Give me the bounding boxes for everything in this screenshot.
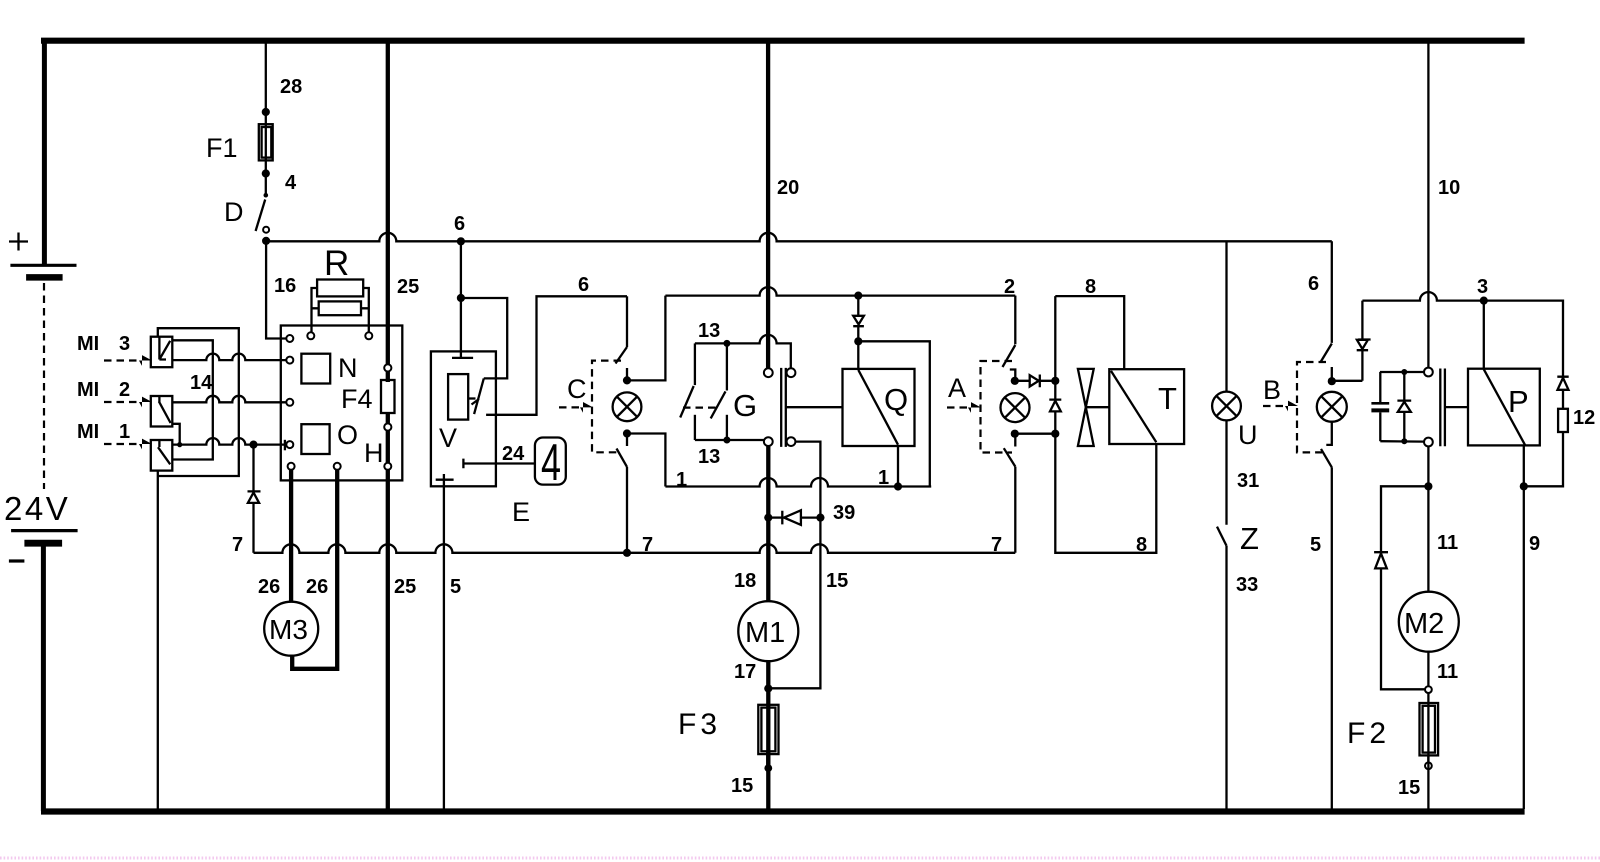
wire B node to diode branch (1332, 380, 1363, 382)
box left terminal 3 (MI2) (286, 399, 293, 406)
svg-text:7: 7 (232, 534, 243, 556)
svg-text:2: 2 (1004, 276, 1015, 298)
thick line 25 (box to bottom bus) (386, 470, 390, 809)
svg-text:F1: F1 (206, 133, 238, 163)
wire from top bus to fuse F1 (265, 42, 267, 174)
svg-text:20: 20 (777, 177, 799, 199)
svg-text:D: D (224, 197, 244, 227)
capacitor block top rail (1380, 371, 1424, 373)
junction dot bottom rail (1401, 438, 1407, 444)
connector: line 10 lower terminal (1424, 438, 1433, 447)
capacitor lower lead (1379, 412, 1381, 441)
top supply bus (+) (41, 38, 1525, 44)
lamp B lower stub (1326, 421, 1332, 445)
F2 lower terminal (1425, 762, 1432, 769)
decorative dotted footer line (0, 857, 1600, 860)
V antenna bar (452, 357, 473, 359)
battery negative lead wire (41, 546, 46, 811)
wire 12 branch to line 9 node (1524, 432, 1563, 486)
node 11 dot (1424, 482, 1432, 490)
battery positive lead wire (42, 38, 47, 264)
wire 24 with tick (463, 459, 535, 469)
node 17 dot (764, 684, 772, 692)
thick line 25 lower (F4 to bottom terminal) (386, 431, 390, 463)
connector: G side lower terminal (787, 437, 796, 446)
A actuator dashed frame (981, 361, 1013, 453)
node 6 dot on rail (457, 237, 465, 245)
battery positive long plate (10, 264, 76, 267)
svg-text:25: 25 (394, 576, 416, 598)
node 15 dot below F3 (764, 764, 772, 772)
MI3 output wire to box (172, 354, 286, 361)
wire diode to resistor 12 (1562, 390, 1564, 409)
relay R right terminal (365, 332, 372, 339)
wire P box to line 9 (1523, 445, 1525, 486)
V switch arm (472, 378, 484, 414)
svg-text:12: 12 (1573, 407, 1595, 429)
svg-text:Z: Z (1240, 521, 1259, 556)
wire lamp C bottom to line 1 (627, 434, 665, 487)
wire node6 down to node (460, 241, 462, 298)
line 10 upper (bus to connector) (1427, 42, 1429, 368)
box bottom terminal 2 (334, 463, 341, 470)
svg-text:6: 6 (454, 213, 465, 235)
line 15 down to M1 return (772, 518, 820, 689)
lamp B (1317, 392, 1347, 422)
MI2 output wire to box (172, 396, 286, 403)
terminal 4 tick (284, 440, 286, 451)
thick wire 26 right (terminal to M3 bottom) (292, 470, 337, 669)
fuse F3 inner wall (761, 708, 775, 752)
device P box (1468, 369, 1540, 446)
lamp B upper switch arm (1320, 344, 1332, 363)
MI2 link junction dot (177, 442, 182, 447)
svg-text:31: 31 (1237, 470, 1259, 492)
MI3 actuation arrow (104, 359, 140, 361)
svg-text:5: 5 (450, 576, 461, 598)
relay R left terminal (307, 332, 314, 339)
battery cell dashed link (43, 283, 45, 489)
rail 2 (C to A switch) (665, 287, 1015, 296)
svg-text:MI: MI (77, 421, 99, 443)
svg-text:B: B (1263, 375, 1281, 405)
svg-text:C: C (567, 374, 587, 404)
svg-text:F3: F3 (678, 708, 721, 741)
motor M1 (738, 601, 798, 661)
device T box (1109, 369, 1184, 444)
junction terminal below M2 (1425, 686, 1432, 693)
wire line 11 (connector to M2) (1427, 446, 1429, 591)
lamp A upper switch arm (1003, 345, 1016, 367)
diode 39 (cathode left) (782, 510, 801, 525)
node 7 dot (623, 549, 631, 557)
V coil (448, 374, 468, 420)
svg-text:H: H (364, 438, 384, 468)
svg-text:E: E (512, 497, 530, 527)
svg-text:25: 25 (397, 276, 419, 298)
relay R left lead (312, 288, 319, 332)
node 7 rail (254, 544, 1016, 553)
wire Q box to line 1 (897, 446, 899, 487)
svg-text:4: 4 (541, 434, 561, 492)
switch D contact circle (263, 227, 269, 233)
connector blade (double bar) (781, 368, 786, 447)
fuse F4 lead lower (386, 413, 390, 424)
switch Z arm (1217, 527, 1227, 546)
sensor switch MI2 box (151, 396, 173, 427)
wire 5 from V to bottom bus (443, 480, 445, 809)
thick line 20 upper (bus to connector) (766, 42, 770, 368)
lamp C lower stub (626, 434, 628, 447)
capacitor upper lead (1379, 372, 1381, 402)
lamp C upper switch arm (616, 347, 628, 364)
node dot on G bottom rail (723, 437, 730, 444)
node dot above Q box (854, 337, 862, 345)
sensor switch MI3 box (151, 337, 173, 368)
control unit box (281, 326, 403, 481)
wire M2 junction to F2 (1427, 693, 1429, 766)
svg-text:18: 18 (734, 570, 756, 592)
lamp A lower stub (1014, 434, 1016, 447)
lamp C upper contact stub (626, 368, 628, 380)
thick line 25 upper (bus to F4) (386, 42, 390, 365)
svg-text:6: 6 (1308, 273, 1319, 295)
fuse F4 body (381, 380, 395, 413)
fan symbol lower blade (1078, 407, 1094, 446)
svg-text:9: 9 (1529, 533, 1540, 555)
svg-text:8: 8 (1136, 534, 1147, 556)
G right contact upper stub (726, 343, 728, 390)
motor M2 (1399, 592, 1459, 652)
lamp B upper switch lead (1331, 241, 1333, 343)
fan symbol upper blade (1078, 369, 1094, 407)
motor M3 (264, 602, 318, 656)
junction dot top rail (1401, 369, 1407, 375)
B actuation arrow (1263, 405, 1286, 407)
battery negative long plate (11, 529, 78, 532)
capacitor C plates (1371, 402, 1389, 405)
battery plus sign (9, 233, 28, 251)
M2 lower lead (1427, 652, 1429, 687)
lamp U (1212, 392, 1241, 421)
diode 12 branch (cathode up) (1557, 377, 1568, 390)
svg-text:26: 26 (306, 576, 328, 598)
battery positive short thick plate (26, 274, 63, 281)
G left contact arm (680, 386, 694, 418)
wire 16 from node16 down to control box (266, 241, 286, 339)
wire diode 39 to line 15 (801, 516, 821, 518)
node dot line8 lower (1051, 430, 1059, 438)
connector box 4 (535, 438, 566, 485)
MI3 inner lead (158, 337, 160, 360)
G right contact arm (711, 391, 726, 418)
lamp A upper switch lead (1014, 296, 1016, 345)
wire B to bottom bus (line 5) (1331, 467, 1333, 809)
fuse F1 body (259, 124, 273, 160)
wire U branch from main rail (1225, 241, 1227, 392)
B actuator dashed frame (1297, 362, 1326, 452)
switch D arm (256, 200, 266, 232)
MI2 inner lead (158, 396, 160, 402)
connector: line 20 lower terminal (764, 437, 773, 446)
svg-text:3: 3 (1477, 276, 1488, 298)
svg-text:15: 15 (1398, 777, 1420, 799)
diode 39 anode dot on line 20 (764, 514, 772, 522)
svg-text:MI: MI (77, 379, 99, 401)
MI feed line to bottom bus (157, 471, 159, 809)
svg-text:13: 13 (698, 446, 720, 468)
indicator square N (301, 354, 330, 384)
node 16 junction dot (262, 237, 270, 245)
svg-text:1: 1 (878, 467, 889, 489)
line 8 top rail (1055, 296, 1124, 369)
svg-text:6: 6 (578, 274, 589, 296)
connector blade stub to Q (786, 406, 843, 408)
relay V box (431, 351, 496, 486)
svg-text:8: 8 (1085, 276, 1096, 298)
diode (MI1 branch, cathode up) (248, 491, 261, 503)
wire node to V switch (upper) (461, 298, 507, 378)
box bottom terminal 3 (384, 463, 391, 470)
svg-text:2: 2 (119, 379, 130, 401)
G left contact upper stub (694, 343, 696, 385)
lamp A lower switch arm (1004, 448, 1016, 466)
V bottom plate (436, 474, 454, 480)
connector: line 10 upper terminal (1424, 368, 1433, 377)
svg-text:10: 10 (1438, 177, 1460, 199)
svg-text:7: 7 (642, 534, 653, 556)
C actuation arrow (559, 406, 582, 408)
box left terminal 4 (MI1) (286, 441, 293, 448)
relay R right lead (361, 288, 369, 332)
wire below lamp A to line 8 (1015, 433, 1055, 435)
F3 to bus thick lead (766, 752, 770, 809)
svg-text:Q: Q (884, 382, 908, 417)
indicator square O (301, 424, 329, 454)
wire node into V box antenna (460, 298, 462, 358)
device Q box (843, 369, 915, 446)
Q branch upper lead (857, 296, 859, 316)
wire node right and down to line 1 (858, 341, 930, 486)
battery minus sign (9, 559, 25, 562)
wire node to Q box (857, 341, 859, 369)
wire line20 to diode 39 (768, 516, 782, 518)
M2 bypass branch wire (1381, 486, 1428, 552)
svg-text:P: P (1508, 384, 1529, 419)
svg-text:N: N (338, 353, 358, 383)
MI3 contact diagonal (159, 341, 170, 360)
line 1 rail (665, 478, 931, 487)
node dot on line 1 (894, 482, 902, 490)
svg-text:M3: M3 (269, 614, 308, 645)
node dot above V (457, 294, 465, 302)
svg-text:V: V (439, 423, 457, 453)
svg-text:MI: MI (77, 333, 99, 355)
G left contact lower stub (694, 415, 696, 440)
diode A to line 8 (cathode right) (1015, 375, 1055, 388)
diode beside capacitor (cathode up) (1397, 372, 1411, 441)
connector blade (double bar) at P (1440, 369, 1445, 447)
lamp A upper contact stub (1010, 370, 1016, 381)
svg-text:15: 15 (826, 570, 848, 592)
diode B branch (cathode up) (1357, 301, 1371, 381)
Q branch lead to node (857, 326, 859, 341)
svg-text:39: 39 (833, 502, 855, 524)
wire diode to node 7 rail (252, 503, 254, 553)
fuse F3 body (758, 705, 778, 754)
wire F2 to bottom bus (1427, 755, 1429, 809)
wire U lamp to switch Z (1225, 420, 1227, 525)
wire lamp C top to rail 2 (627, 296, 665, 381)
svg-text:33: 33 (1236, 574, 1258, 596)
MI1 actuation arrow (104, 443, 140, 445)
thick wire 26 left (terminal to M3) (289, 470, 293, 602)
fuse F4 lead upper (386, 371, 390, 382)
diode on line 8 (cathode up) (1049, 400, 1061, 412)
node dot line8 upper (1051, 377, 1059, 385)
box bottom terminal 1 (288, 463, 295, 470)
bottom supply bus (-) (41, 808, 1525, 814)
MI1 inner lead (158, 440, 160, 447)
svg-text:28: 28 (280, 76, 302, 98)
fuse F4 top terminal (384, 364, 391, 371)
svg-text:24: 24 (502, 443, 525, 465)
Q box diagonal (858, 370, 898, 445)
wire C to node 7 (626, 467, 628, 553)
node dot on MI1 wire (249, 441, 257, 449)
resistor 12 body (1558, 409, 1568, 432)
wire Z to bottom bus (1225, 546, 1227, 809)
node dot above lamp A (1011, 377, 1019, 385)
connector: line 20 upper terminal (764, 368, 773, 377)
svg-text:1: 1 (676, 469, 687, 491)
node dot above lamp B (1328, 377, 1336, 385)
svg-text:11: 11 (1437, 532, 1458, 554)
line 9 to bottom bus (1523, 486, 1525, 809)
node 3 rail (1362, 292, 1563, 377)
M1 to F3 thick lead (766, 661, 770, 768)
svg-text:M2: M2 (1404, 608, 1444, 640)
svg-text:U: U (1238, 420, 1258, 450)
capacitor block bottom rail (1380, 440, 1424, 443)
svg-text:G: G (733, 388, 757, 423)
lamp A (1001, 393, 1030, 422)
node dot below lamp C (623, 429, 631, 437)
node 4 dot (262, 169, 270, 177)
fuse F2 inner wall (1423, 706, 1435, 753)
svg-text:4: 4 (285, 172, 297, 194)
line 8 upper segment (1054, 296, 1056, 400)
box left terminal 1 (wire 16) (286, 335, 293, 342)
node dot on G top rail (723, 340, 730, 347)
MI2 contact diagonal (159, 401, 171, 423)
box left terminal 2 (MI3) (286, 357, 293, 364)
svg-text:F2: F2 (1347, 717, 1390, 750)
MI3 top loop wire (172, 340, 213, 459)
svg-text:16: 16 (274, 275, 296, 297)
MI1 output wire to box (172, 438, 286, 445)
svg-text:5: 5 (1310, 534, 1321, 556)
diode M2 branch (cathode up) (1374, 552, 1388, 568)
svg-text:14: 14 (190, 372, 213, 394)
lamp C (613, 392, 642, 421)
T box diagonal (1111, 371, 1156, 442)
node 3 dot (1480, 297, 1488, 305)
lamp C lower switch arm (617, 449, 628, 467)
svg-text:1: 1 (119, 421, 130, 443)
wire from connector lower right terminal (795, 442, 820, 518)
fuse F2 body (1420, 703, 1439, 755)
svg-text:17: 17 (734, 661, 756, 683)
battery negative short thick plate (24, 540, 62, 547)
MI enclosure top line (158, 328, 239, 476)
G right contact lower stub (726, 415, 728, 440)
svg-text:24V: 24V (4, 490, 70, 527)
MI2 lower link wire (172, 424, 179, 445)
svg-text:11: 11 (1437, 661, 1458, 683)
svg-text:26: 26 (258, 576, 280, 598)
svg-text:R: R (324, 244, 349, 283)
V coil tick (468, 397, 475, 399)
fan link to T box (1086, 406, 1110, 408)
lamp B upper contact stub (1331, 367, 1333, 381)
switch D pivot dot (264, 193, 269, 198)
node dot below lamp A (1011, 430, 1019, 438)
MI1 contact diagonal (158, 447, 170, 464)
wire V lower contact to node 6 branch (486, 296, 627, 415)
line 8 lower segment (1055, 411, 1156, 552)
relay G contact rail bottom (695, 439, 764, 441)
node dot Q branch (854, 292, 862, 300)
svg-text:M1: M1 (745, 617, 785, 649)
svg-text:T: T (1158, 381, 1177, 416)
svg-text:F4: F4 (341, 384, 373, 414)
sensor switch MI1 box (151, 440, 173, 471)
svg-text:A: A (948, 373, 966, 403)
wire node4 to switch D (265, 174, 267, 196)
relay R coil lower winding (319, 301, 361, 315)
P box diagonal (1484, 369, 1525, 445)
G linkage dashes (683, 407, 718, 409)
lamp B lower switch arm (1321, 449, 1332, 467)
main distribution wire (node 6 rail) from D to B branch (266, 233, 1332, 242)
C actuator dashed frame (592, 361, 621, 453)
wire A to node 7 rail end (1014, 467, 1016, 553)
fuse F4 bottom terminal (384, 423, 391, 430)
A actuation arrow (947, 406, 970, 408)
node dot line 9 (1520, 482, 1528, 490)
node dot line 15 (816, 514, 824, 522)
wire from MI1 node down to diode (252, 445, 254, 492)
relay R coil upper winding (317, 280, 363, 297)
lamp C upper switch lead (626, 296, 628, 347)
connector blade stub to P box (1445, 406, 1468, 408)
svg-text:3: 3 (119, 333, 130, 355)
diode above Q (cathode down) (853, 316, 864, 326)
node 28 dot (262, 108, 270, 116)
connector: G side upper terminal (787, 368, 796, 377)
svg-text:O: O (337, 420, 358, 450)
svg-text:7: 7 (991, 534, 1002, 556)
M2 bypass wire to return (1381, 568, 1425, 689)
MI2 actuation arrow (104, 401, 140, 403)
svg-text:15: 15 (731, 775, 753, 797)
wire node3 to P box (1483, 301, 1485, 369)
svg-text:13: 13 (698, 320, 720, 342)
node dot above lamp C (623, 376, 631, 384)
relay G contact rail top (695, 335, 791, 368)
thick line 20 lower (connector to M1) (766, 446, 770, 602)
